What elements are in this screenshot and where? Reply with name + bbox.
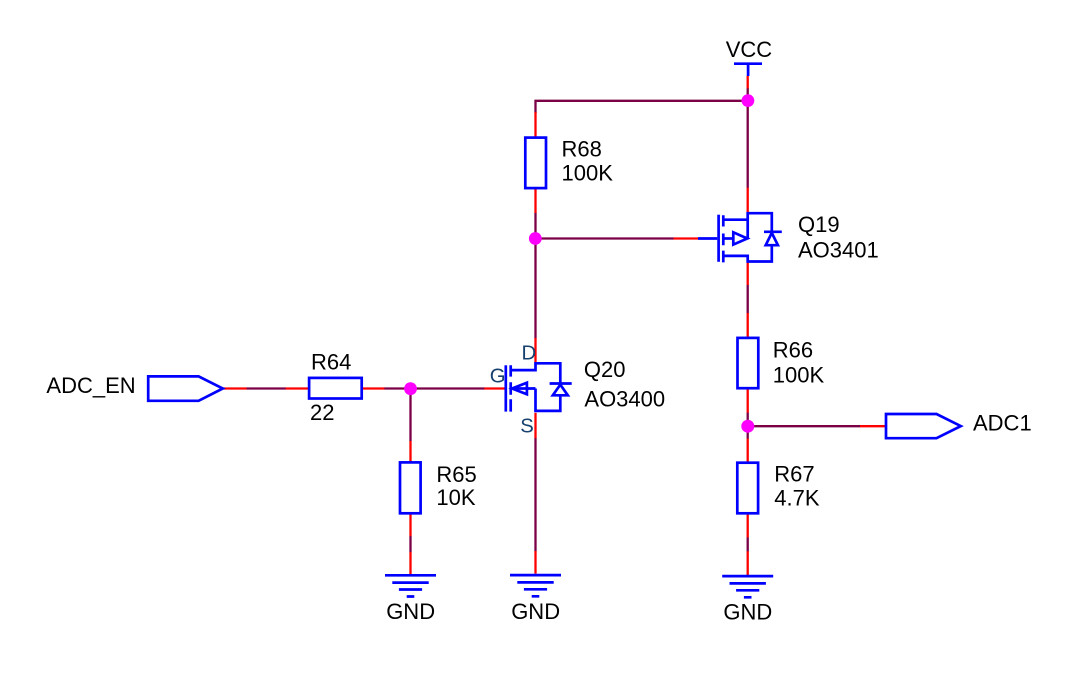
svg-text:ADC1: ADC1 <box>973 410 1032 435</box>
wire: R65 bottom to GND1 pin <box>409 536 411 552</box>
svg-text:R64: R64 <box>311 349 351 374</box>
svg-text:AO3400: AO3400 <box>584 387 665 412</box>
pin: GND3 ground pin <box>747 551 749 575</box>
resistor R67 body <box>737 463 758 514</box>
svg-text:10K: 10K <box>436 485 475 510</box>
pin: R66 top pin <box>747 313 749 338</box>
node D junction dot (R64 / R65 / Q20 gate) <box>404 382 417 395</box>
resistor R65 body <box>400 462 421 513</box>
svg-text:R68: R68 <box>562 137 602 162</box>
svg-text:100K: 100K <box>562 160 614 185</box>
svg-text:AO3401: AO3401 <box>798 238 879 263</box>
svg-text:100K: 100K <box>773 363 825 388</box>
pin: Q19 drain pin D <box>747 262 749 285</box>
wire: top horizontal VCC rail with corner down to R68 <box>536 101 748 113</box>
pin: R68 bottom pin <box>534 188 536 213</box>
wire: R68 bottom through node B down to Q20 drain <box>534 213 536 339</box>
pin: Q19 source pin S <box>747 188 749 213</box>
wire: node D down to R65 top <box>409 389 411 442</box>
wire: node C to ADC1 port <box>748 425 861 427</box>
pin: R66 bottom pin <box>747 388 749 413</box>
pin: R64 right pin <box>361 387 384 389</box>
pin: R68 top pin <box>534 112 536 138</box>
wire: VCC stem down through node A to Q19 source pin <box>747 88 749 188</box>
node A junction dot (VCC rail) <box>742 94 755 107</box>
wire: Q19 drain to R66 top <box>747 285 749 314</box>
pin: GND1 ground pin <box>409 552 411 574</box>
wire: ADC_EN port to R64 left <box>246 387 286 389</box>
svg-text:ADC_EN: ADC_EN <box>46 373 135 398</box>
svg-text:GND: GND <box>386 599 435 624</box>
svg-text:R67: R67 <box>774 461 814 486</box>
svg-text:22: 22 <box>310 400 334 425</box>
power VCC symbol bar <box>734 64 762 76</box>
pin: R67 bottom pin <box>747 513 749 537</box>
wire: node B to Q19 gate <box>536 237 674 239</box>
wire: R64 right through node D to Q20 gate <box>384 387 485 389</box>
svg-text:GND: GND <box>723 600 772 625</box>
node C junction dot (R66 / R67 / ADC1) <box>741 420 754 433</box>
resistor R66 body <box>738 338 759 388</box>
svg-text:VCC: VCC <box>726 37 773 62</box>
pin: R65 top pin <box>409 441 411 463</box>
svg-text:R65: R65 <box>436 462 476 487</box>
wire: Q20 source down to GND2 pin <box>534 438 536 551</box>
svg-text:4.7K: 4.7K <box>774 485 820 510</box>
pin: R65 bottom pin <box>409 513 411 536</box>
resistor R64 body <box>309 378 362 399</box>
pin: VCC symbol pin (red) <box>747 76 749 89</box>
resistor R68 body <box>525 138 546 189</box>
transistor Q20 N-MOSFET AO3400 symbol <box>506 363 572 411</box>
svg-text:R66: R66 <box>773 337 813 362</box>
transistor Q19 P-MOSFET AO3401 symbol <box>698 213 782 262</box>
svg-text:Q19: Q19 <box>798 212 840 237</box>
pin: Q19 gate pin (red part) <box>674 237 699 239</box>
wire: R66 bottom through node C to R67 top <box>747 412 749 439</box>
ground GND3 symbol (under R67) <box>722 576 773 597</box>
pin: Q20 drain pin D <box>534 338 536 363</box>
svg-text:D: D <box>522 342 537 364</box>
port ADC_EN <box>148 376 223 400</box>
wire: R67 bottom to GND3 pin <box>747 537 749 551</box>
node B junction dot (R68 / Q19 gate / Q20 drain) <box>529 232 542 245</box>
pin: Q20 gate pin G <box>484 387 506 389</box>
ground GND1 symbol (under R65) <box>385 575 436 596</box>
pin: GND2 ground pin <box>534 551 536 574</box>
svg-text:GND: GND <box>511 599 560 624</box>
svg-text:Q20: Q20 <box>584 357 626 382</box>
pin: R64 left pin <box>286 387 310 389</box>
svg-text:G: G <box>490 365 506 387</box>
pin: ADC_EN port pin <box>223 387 246 389</box>
pin: Q20 source pin S <box>534 413 536 438</box>
port ADC1 <box>886 414 961 438</box>
svg-text:S: S <box>520 416 534 438</box>
ground GND2 symbol (under Q20 source) <box>510 575 561 596</box>
pin: ADC1 port pin <box>860 425 885 427</box>
pin: R67 top pin <box>747 439 749 463</box>
